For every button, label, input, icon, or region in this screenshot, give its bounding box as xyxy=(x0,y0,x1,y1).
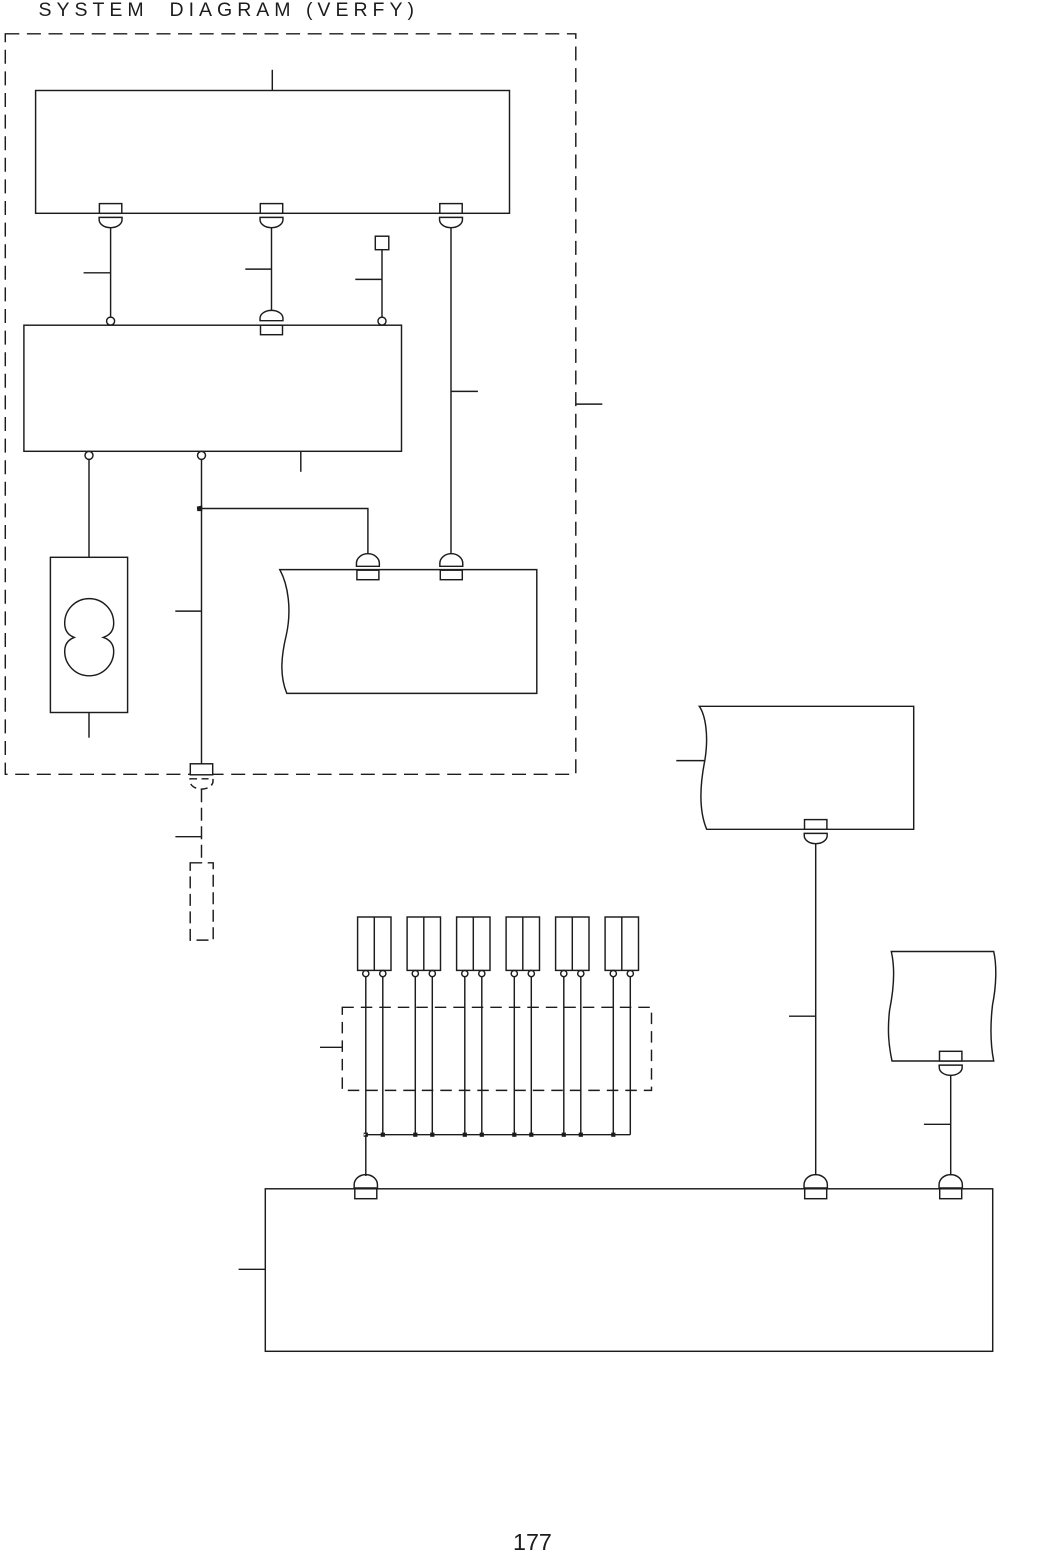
pin circle on B2 bottom left xyxy=(85,451,93,459)
bus junction J3 xyxy=(430,1133,434,1137)
head H4 divider xyxy=(522,917,524,970)
bus junction J6 xyxy=(512,1133,516,1137)
tick on wire W8 xyxy=(789,1015,816,1017)
connector CN4 male half in B2 xyxy=(261,325,283,335)
tick on wire W10 xyxy=(924,1123,951,1125)
tick into B4 left edge xyxy=(676,760,705,762)
connector CN4 female half on B2 top xyxy=(260,310,283,320)
head lead wire L10 xyxy=(580,976,582,1134)
connector CN1 female half xyxy=(99,217,122,227)
connector CN8 female half xyxy=(804,833,827,843)
head lead wire L1 xyxy=(365,976,367,1134)
connector CN11 male half in B6 xyxy=(805,1189,827,1199)
terminal T1 (small square) xyxy=(375,236,389,250)
block B1 (top board) xyxy=(36,91,510,214)
head H4 body xyxy=(506,917,539,970)
wire W5 (B2 to CN5) xyxy=(201,459,203,765)
head lead wire L5 xyxy=(464,976,466,1134)
bus junction J5 xyxy=(480,1133,484,1137)
block B5 (torn-edge board, small) xyxy=(888,952,995,1062)
connector CN9 female half on B6 xyxy=(354,1175,377,1188)
tick on wire W1 xyxy=(84,272,111,274)
tick on boundary right edge xyxy=(576,403,603,405)
bus junction J2 xyxy=(413,1133,417,1137)
wire stub at top of B1 xyxy=(271,70,273,91)
block B6 (bottom board) xyxy=(265,1189,992,1352)
head H6 pin circles xyxy=(610,971,633,977)
connector CN3 male half on B1 xyxy=(440,204,462,214)
connector CN11 female half on B6 xyxy=(804,1175,827,1188)
head H1 divider xyxy=(373,917,375,970)
dashed lead wire below CN5 xyxy=(201,789,203,863)
bus junction J4 xyxy=(463,1133,467,1137)
bus junction J9 xyxy=(579,1133,583,1137)
motor M1 body xyxy=(50,557,127,712)
block B2 (main board) xyxy=(24,325,402,451)
wire W8 (CN8 to CN11) xyxy=(815,844,817,1176)
title text xyxy=(39,0,419,22)
bus junction J7 xyxy=(529,1133,533,1137)
motor M1 winding (figure-8) xyxy=(65,599,114,676)
tick on wire W3 xyxy=(355,278,382,280)
optional unit (dashed outline) xyxy=(190,863,213,940)
wire W9 (bus to CN9) xyxy=(365,1135,367,1176)
bus junction J1 xyxy=(381,1133,385,1137)
bus junction J10 xyxy=(611,1133,615,1137)
bus junction J8 xyxy=(562,1133,566,1137)
head H2 pin circles xyxy=(412,971,435,977)
pin circle on B2 top (W1) xyxy=(107,317,115,325)
pin circle on B2 top (W3) xyxy=(378,317,386,325)
head lead wire L3 xyxy=(414,976,416,1134)
tick into ribbon guide xyxy=(320,1046,342,1048)
wire stub below B2 xyxy=(300,451,302,472)
wire W4 (B2 to M1) xyxy=(88,459,90,557)
block B3 (torn-edge board) xyxy=(280,570,537,694)
connector CN7 female half on B3 xyxy=(440,554,463,567)
head H3 body xyxy=(457,917,490,970)
head lead wire L12 xyxy=(629,976,631,1134)
head H6 body xyxy=(605,917,638,970)
head H4 pin circles xyxy=(511,971,534,977)
tick on wire W5 xyxy=(175,610,201,612)
head H3 divider xyxy=(472,917,474,970)
junction dot on W5 xyxy=(198,506,202,510)
wire W3 (T1 to B2 pin) xyxy=(381,250,383,318)
tick on wire W7 xyxy=(451,390,478,392)
pin circle on B2 bottom mid xyxy=(198,451,206,459)
head H5 body xyxy=(556,917,589,970)
connector CN10 female half xyxy=(939,1065,962,1075)
head H6 divider xyxy=(621,917,623,970)
connector CN12 male half in B6 xyxy=(940,1189,962,1199)
connector CN9 male half in B6 xyxy=(355,1189,377,1199)
head lead wire L11 xyxy=(612,976,614,1134)
wire W10 (CN10 to CN12) xyxy=(950,1076,952,1176)
head H5 pin circles xyxy=(561,971,584,977)
head lead wire L4 xyxy=(431,976,433,1134)
common bus wire xyxy=(366,1134,630,1136)
connector CN7 male half in B3 xyxy=(440,570,462,580)
block B4 (torn-edge board, right) xyxy=(699,706,913,829)
head lead wire L9 xyxy=(563,976,565,1134)
connector CN2 female half xyxy=(260,217,283,227)
connector CN10 male half on B5 xyxy=(940,1051,962,1061)
head H3 pin circles xyxy=(462,971,485,977)
ribbon guide (dashed) xyxy=(342,1007,651,1090)
head lead wire L2 xyxy=(382,976,384,1134)
tick on wire W2 xyxy=(245,268,271,270)
head lead wire L7 xyxy=(513,976,515,1134)
head H5 divider xyxy=(571,917,573,970)
connector CN8 male half on B4 xyxy=(805,820,827,830)
main unit boundary (dashed) xyxy=(5,34,576,775)
tick into B6 left edge xyxy=(239,1268,266,1270)
branch wire W6 (junction to CN6) xyxy=(202,509,368,554)
bus end marker (open) xyxy=(364,1133,368,1137)
head lead wire L8 xyxy=(530,976,532,1134)
wire W1 (CN1 to B2 pin) xyxy=(110,228,112,317)
connector CN12 female half on B6 xyxy=(939,1175,962,1188)
connector CN5 male half on boundary xyxy=(190,764,212,775)
connector CN6 female half on B3 xyxy=(356,554,379,567)
head lead wire L6 xyxy=(481,976,483,1134)
connector CN3 female half xyxy=(440,217,463,227)
wire stub below M1 xyxy=(88,713,90,738)
head H1 pin circles xyxy=(363,971,386,977)
tick on dashed lead xyxy=(175,836,201,838)
head H2 divider xyxy=(423,917,425,970)
connector CN2 male half on B1 xyxy=(260,204,282,214)
wire W2 (CN2 to CN4) xyxy=(271,228,273,311)
page number xyxy=(513,1529,552,1556)
connector CN6 male half in B3 xyxy=(357,570,379,580)
connector CN1 male half on B1 xyxy=(99,204,121,214)
connector CN5 female half (dashed) xyxy=(190,779,213,789)
head H1 body xyxy=(358,917,391,970)
head H2 body xyxy=(407,917,440,970)
wire W7 (CN3 to CN7) xyxy=(450,228,452,554)
